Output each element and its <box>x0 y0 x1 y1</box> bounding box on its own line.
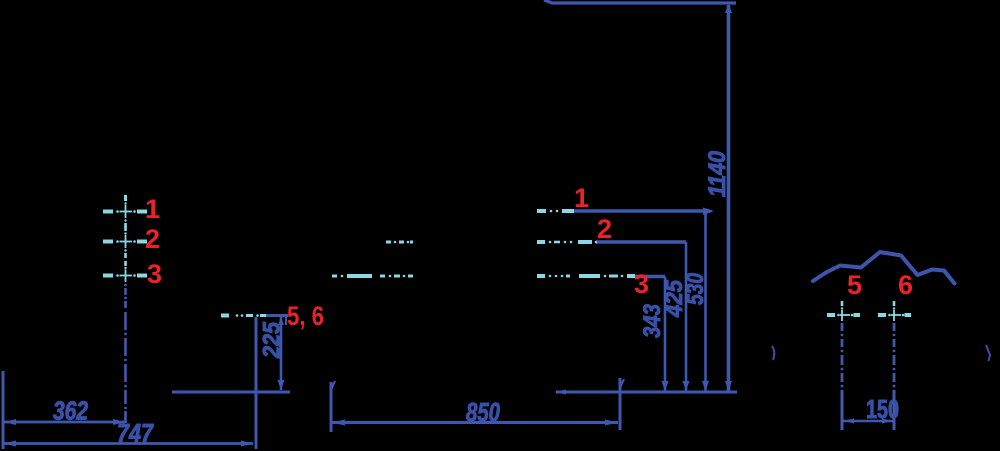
datum target 1 (left column) <box>103 195 147 228</box>
svg-text:343: 343 <box>639 303 666 338</box>
dimension 1140 vertical line <box>725 4 732 391</box>
dashed extension below target 5 <box>841 323 844 430</box>
dimension 850 line <box>332 420 618 426</box>
datum target 5 (section view) <box>827 301 860 321</box>
dimension 850 right extension line <box>620 378 624 430</box>
label 3 (right, red) <box>634 269 649 299</box>
row line 2 (blue) <box>596 242 686 250</box>
svg-text:225: 225 <box>259 321 286 358</box>
row line 1 (blue) <box>569 208 714 222</box>
label 5 (red) <box>847 270 862 300</box>
datum target 3 (left column) <box>103 261 147 282</box>
label 2 (left, red) <box>145 224 160 254</box>
svg-text:6: 6 <box>898 270 913 300</box>
svg-text:150: 150 <box>866 394 899 424</box>
label 1 (right, red) <box>574 183 589 213</box>
dimension 425 vertical line <box>683 242 690 391</box>
dimension text 530 (rotated) <box>682 272 709 305</box>
svg-text:5, 6: 5, 6 <box>287 301 324 331</box>
dimension 343 vertical line <box>662 277 669 391</box>
dashed extension below target 6 <box>893 323 896 430</box>
dimension text 362 <box>53 396 88 426</box>
dimension 850 left extension line <box>331 381 335 432</box>
datum target 6 (section view) <box>878 301 911 321</box>
svg-text:3: 3 <box>147 259 162 289</box>
svg-text:2: 2 <box>597 214 612 244</box>
label 1 (left, red) <box>145 194 160 224</box>
svg-text:362: 362 <box>53 396 88 426</box>
dimension 362 line <box>4 419 125 425</box>
left column dash-dot extension down to 362 dim (blue) <box>124 284 127 423</box>
svg-text:850: 850 <box>466 397 500 427</box>
dimension 530 vertical line <box>702 212 709 391</box>
svg-text:3: 3 <box>634 269 649 299</box>
row line 3 (blue) <box>634 277 665 285</box>
svg-text:2: 2 <box>145 224 160 254</box>
svg-text:5: 5 <box>847 270 862 300</box>
svg-text:1: 1 <box>574 183 589 213</box>
dimension text 850 <box>466 397 500 427</box>
extension line at x=256 (from point 5,6 down to 747 dim) <box>255 317 258 449</box>
dimension text 425 (rotated) <box>661 279 688 318</box>
dimension 747 line <box>4 441 253 447</box>
ground baseline right segment <box>554 390 737 395</box>
ground baseline left segment <box>172 391 290 394</box>
label 2 (right, red) <box>597 214 612 244</box>
datum target 2 (left column) <box>103 226 147 258</box>
dimension 150 line <box>843 419 893 424</box>
dimension 225 vertical line <box>278 316 285 390</box>
left extension line x=3 <box>2 371 5 449</box>
dimension text 343 (rotated) <box>639 303 666 338</box>
dimension text 747 <box>117 418 154 448</box>
label 3 (left, red) <box>147 259 162 289</box>
dimension text 1140 (rotated) <box>704 150 731 197</box>
point 5,6 side-view leader line (cyan dash-dot + blue end) <box>221 314 266 317</box>
body seam mark left of section <box>772 346 774 360</box>
dimension text 150 <box>866 394 899 424</box>
point 5,6 leader blue segment <box>266 316 288 326</box>
svg-text:1: 1 <box>145 194 160 224</box>
row 1 dash-dot line (cyan) <box>537 210 574 213</box>
svg-text:1140: 1140 <box>704 150 731 197</box>
row 3 dash-dot line (cyan) <box>332 275 635 278</box>
body seam mark right of section <box>986 345 990 361</box>
row 2 dash-dot line (cyan) <box>386 241 597 244</box>
svg-text:747: 747 <box>117 418 154 448</box>
dimension text 225 (rotated) <box>259 321 286 358</box>
label 5, 6 (red) <box>287 301 324 331</box>
top reference line (roof height) <box>544 0 736 3</box>
label 6 (red) <box>898 270 913 300</box>
roof profile polyline (side view) <box>813 252 955 284</box>
